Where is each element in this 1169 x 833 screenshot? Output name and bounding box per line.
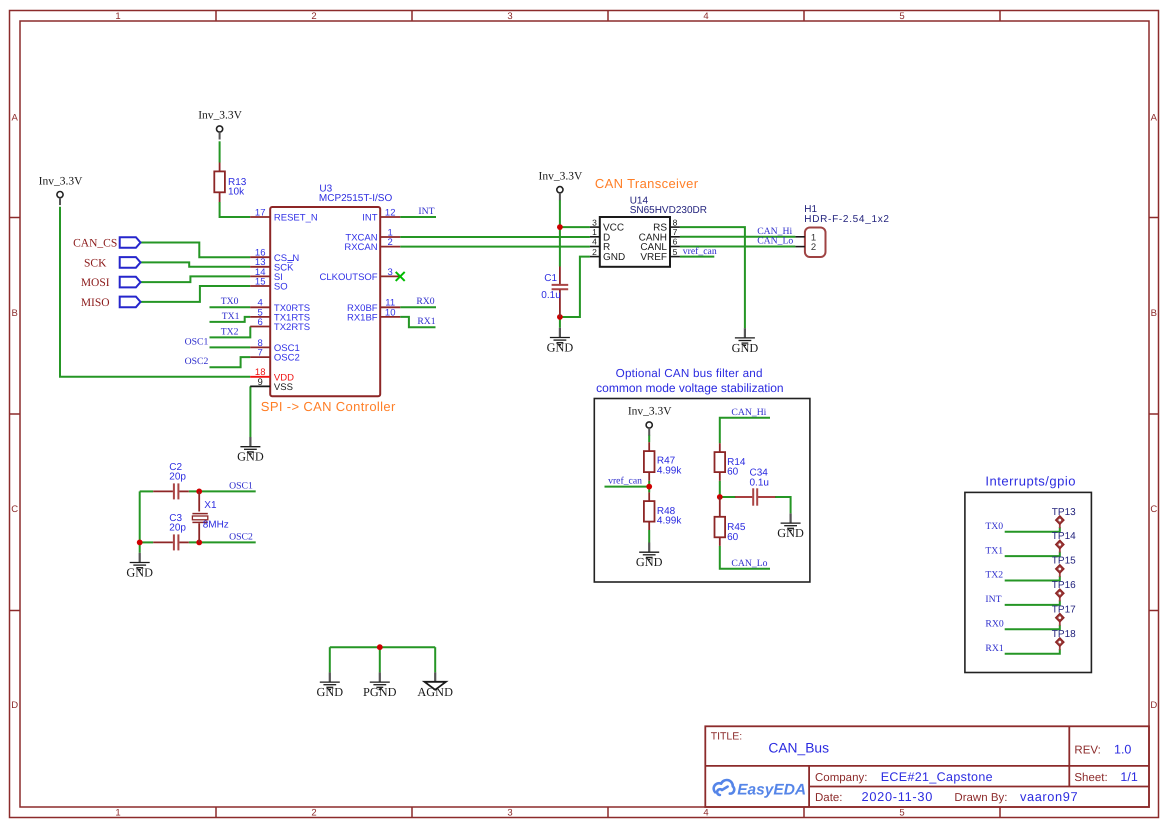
- svg-text:RXCAN: RXCAN: [344, 242, 377, 253]
- svg-text:TX2: TX2: [985, 570, 1003, 581]
- svg-text:vref_can: vref_can: [683, 246, 717, 257]
- svg-text:1: 1: [115, 807, 120, 818]
- svg-text:5: 5: [899, 807, 904, 818]
- svg-text:MCP2515T-I/SO: MCP2515T-I/SO: [319, 193, 393, 204]
- svg-text:GND: GND: [316, 685, 343, 699]
- svg-text:D: D: [1150, 700, 1157, 711]
- svg-text:MOSI: MOSI: [81, 277, 110, 289]
- svg-text:INT: INT: [418, 206, 434, 217]
- svg-text:60: 60: [727, 532, 739, 543]
- svg-text:X1: X1: [204, 500, 217, 511]
- svg-text:ECE#21_Capstone: ECE#21_Capstone: [881, 770, 993, 784]
- svg-text:CAN Transceiver: CAN Transceiver: [595, 176, 699, 191]
- svg-text:TP14: TP14: [1052, 531, 1076, 542]
- svg-text:4.99k: 4.99k: [657, 465, 682, 476]
- svg-text:MISO: MISO: [81, 297, 110, 309]
- svg-text:TP15: TP15: [1052, 556, 1076, 567]
- svg-text:GND: GND: [603, 252, 625, 263]
- svg-text:7: 7: [673, 227, 678, 237]
- svg-text:RX0: RX0: [416, 296, 434, 307]
- svg-text:4.99k: 4.99k: [657, 515, 682, 526]
- svg-text:TP16: TP16: [1052, 580, 1076, 591]
- svg-text:Inv_3.3V: Inv_3.3V: [39, 175, 83, 187]
- svg-text:1/1: 1/1: [1120, 770, 1137, 784]
- svg-text:Interrupts/gpio: Interrupts/gpio: [985, 474, 1076, 489]
- svg-text:4: 4: [703, 807, 708, 818]
- svg-text:20p: 20p: [169, 523, 186, 534]
- svg-text:TX0: TX0: [221, 296, 239, 307]
- svg-text:CLKOUTSOF: CLKOUTSOF: [320, 272, 378, 283]
- svg-text:SCK: SCK: [84, 258, 107, 270]
- svg-text:GND: GND: [636, 555, 663, 569]
- svg-text:GND: GND: [732, 341, 759, 355]
- svg-text:1.0: 1.0: [1114, 742, 1131, 756]
- svg-text:12: 12: [385, 207, 396, 218]
- svg-text:Sheet:: Sheet:: [1074, 772, 1107, 784]
- svg-text:B: B: [1151, 308, 1157, 319]
- svg-text:OSC2: OSC2: [185, 356, 209, 367]
- svg-text:0.1u: 0.1u: [750, 477, 769, 488]
- svg-text:2: 2: [811, 242, 816, 253]
- svg-text:HDR-F-2.54_1x2: HDR-F-2.54_1x2: [804, 214, 889, 225]
- svg-text:vref_can: vref_can: [608, 476, 642, 487]
- svg-text:RX1BF: RX1BF: [347, 313, 378, 324]
- svg-text:common mode voltage stabilizat: common mode voltage stabilization: [596, 381, 783, 395]
- svg-text:Inv_3.3V: Inv_3.3V: [628, 406, 672, 418]
- svg-text:Date:: Date:: [815, 792, 843, 804]
- svg-text:10: 10: [385, 307, 396, 318]
- svg-text:1: 1: [115, 11, 120, 22]
- svg-text:B: B: [12, 308, 18, 319]
- svg-text:Inv_3.3V: Inv_3.3V: [198, 110, 242, 122]
- svg-text:GND: GND: [547, 340, 574, 354]
- svg-text:3: 3: [507, 11, 512, 22]
- svg-text:2: 2: [311, 11, 316, 22]
- svg-text:CAN_Hi: CAN_Hi: [731, 407, 766, 418]
- svg-text:SPI -> CAN Controller: SPI -> CAN Controller: [261, 399, 396, 414]
- svg-text:8MHz: 8MHz: [203, 520, 229, 531]
- svg-text:OSC1: OSC1: [185, 336, 209, 347]
- svg-text:20p: 20p: [169, 471, 186, 482]
- svg-text:2: 2: [388, 237, 393, 248]
- svg-text:3: 3: [507, 807, 512, 818]
- svg-text:3: 3: [388, 267, 393, 278]
- svg-text:A: A: [1151, 112, 1158, 123]
- svg-text:INT: INT: [985, 594, 1001, 605]
- svg-text:GND: GND: [237, 450, 264, 464]
- svg-text:10k: 10k: [228, 187, 245, 198]
- svg-text:TP17: TP17: [1052, 604, 1076, 615]
- svg-text:TX0: TX0: [985, 521, 1003, 532]
- svg-text:D: D: [11, 700, 18, 711]
- svg-text:TX2: TX2: [221, 326, 239, 337]
- svg-text:TX1: TX1: [222, 311, 240, 322]
- svg-text:SO: SO: [274, 282, 288, 293]
- svg-text:5: 5: [673, 247, 678, 257]
- svg-text:AGND: AGND: [417, 685, 453, 699]
- svg-text:REV:: REV:: [1074, 744, 1100, 756]
- svg-text:RX1: RX1: [417, 316, 435, 327]
- svg-text:TITLE:: TITLE:: [711, 731, 743, 743]
- svg-text:TX2RTS: TX2RTS: [274, 322, 310, 333]
- svg-text:CAN_Bus: CAN_Bus: [768, 741, 829, 756]
- svg-text:Drawn By:: Drawn By:: [954, 792, 1007, 804]
- svg-text:9: 9: [258, 377, 263, 388]
- svg-text:5: 5: [899, 11, 904, 22]
- svg-text:GND: GND: [777, 526, 804, 540]
- svg-text:6: 6: [258, 317, 263, 328]
- svg-text:C: C: [1150, 504, 1157, 515]
- svg-text:2: 2: [592, 247, 597, 257]
- svg-text:GND: GND: [126, 565, 153, 579]
- svg-text:TP13: TP13: [1052, 507, 1076, 518]
- svg-text:A: A: [12, 112, 19, 123]
- svg-text:0.1u: 0.1u: [541, 290, 560, 301]
- svg-text:C1: C1: [544, 273, 557, 284]
- svg-text:4: 4: [592, 237, 597, 247]
- svg-text:3: 3: [592, 217, 597, 227]
- svg-text:OSC2: OSC2: [274, 353, 300, 364]
- svg-text:Inv_3.3V: Inv_3.3V: [539, 170, 583, 182]
- svg-text:Optional CAN bus filter and: Optional CAN bus filter and: [616, 367, 763, 380]
- svg-text:vaaron97: vaaron97: [1020, 789, 1078, 804]
- svg-text:CAN_Lo: CAN_Lo: [757, 236, 793, 247]
- svg-text:15: 15: [255, 276, 266, 287]
- svg-text:17: 17: [255, 207, 266, 218]
- svg-text:RX0: RX0: [985, 619, 1003, 630]
- svg-text:6: 6: [673, 237, 678, 247]
- svg-text:TP18: TP18: [1052, 629, 1076, 640]
- svg-text:Company:: Company:: [815, 772, 867, 784]
- svg-text:8: 8: [673, 217, 678, 227]
- svg-text:OSC1: OSC1: [229, 480, 253, 491]
- svg-text:RESET_N: RESET_N: [274, 213, 318, 224]
- svg-text:RX1: RX1: [985, 643, 1003, 654]
- svg-text:C: C: [11, 504, 18, 515]
- svg-text:7: 7: [258, 348, 263, 359]
- svg-text:TX1: TX1: [985, 545, 1003, 556]
- svg-text:VSS: VSS: [274, 382, 293, 393]
- svg-text:SN65HVD230DR: SN65HVD230DR: [630, 205, 707, 216]
- svg-text:VREF: VREF: [640, 252, 667, 263]
- svg-text:PGND: PGND: [363, 685, 397, 699]
- svg-text:OSC2: OSC2: [229, 531, 253, 542]
- svg-text:INT: INT: [362, 213, 378, 224]
- svg-text:CAN_Lo: CAN_Lo: [731, 558, 767, 569]
- svg-text:60: 60: [727, 467, 739, 478]
- svg-text:2020-11-30: 2020-11-30: [862, 789, 934, 804]
- svg-text:2: 2: [311, 807, 316, 818]
- svg-text:EasyEDA: EasyEDA: [737, 782, 806, 799]
- svg-text:1: 1: [592, 227, 597, 237]
- svg-text:CAN_CS: CAN_CS: [73, 238, 117, 250]
- svg-text:4: 4: [703, 11, 708, 22]
